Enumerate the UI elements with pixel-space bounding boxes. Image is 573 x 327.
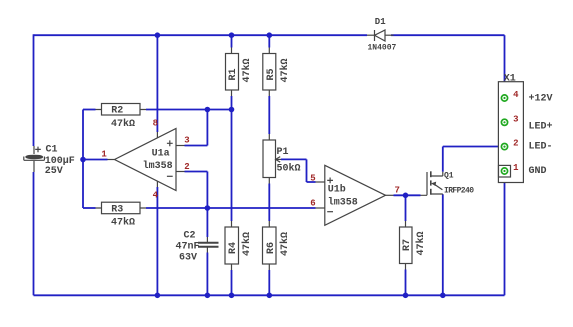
svg-text:R6: R6 xyxy=(266,242,277,254)
op-amp U1a xyxy=(108,129,185,191)
potentiometer P1 xyxy=(263,134,281,184)
node bottom rail / C2 junction xyxy=(205,293,211,299)
svg-text:47kΩ: 47kΩ xyxy=(241,58,253,82)
wire U1a pin3 branch xyxy=(185,110,208,146)
svg-text:1: 1 xyxy=(513,163,519,173)
wire Q1 source to bottom rail xyxy=(442,195,444,296)
wire P1 wiper to U1b pin5 xyxy=(281,159,316,182)
svg-text:R7: R7 xyxy=(402,239,413,251)
wire pin7 node down to R7 xyxy=(405,195,407,221)
svg-text:47nF: 47nF xyxy=(175,241,199,252)
wire R1 bottom to node xyxy=(231,96,233,110)
svg-text:R5: R5 xyxy=(266,68,277,80)
resistor R6 xyxy=(263,221,277,270)
svg-text:25V: 25V xyxy=(45,166,63,177)
diode D1 xyxy=(367,30,394,41)
svg-text:C1: C1 xyxy=(46,145,58,156)
svg-text:1N4007: 1N4007 xyxy=(368,43,397,52)
svg-text:4: 4 xyxy=(513,90,519,100)
node pin7 junction xyxy=(403,193,409,199)
X1 pin 2 xyxy=(501,144,507,150)
svg-text:4: 4 xyxy=(153,191,159,201)
wire X1 pin4 drop from top rail xyxy=(504,35,506,97)
wire C2 upper xyxy=(206,208,208,237)
wire R2 left stub xyxy=(83,109,96,111)
svg-text:63V: 63V xyxy=(179,252,197,263)
wire R2/R3 left vertical xyxy=(82,110,84,209)
wire U1a pin4 supply xyxy=(156,187,158,295)
svg-text:5: 5 xyxy=(310,174,315,184)
wire R5 bottom to P1 xyxy=(268,96,270,134)
wire LED- from X1 pin2 to Q1 drain xyxy=(443,147,504,172)
connector X1 xyxy=(498,82,523,183)
wire top rail right of D1 xyxy=(391,34,505,36)
svg-text:LED-: LED- xyxy=(529,141,553,152)
svg-text:IRFP240: IRFP240 xyxy=(444,186,474,195)
node top rail / pin8 junction xyxy=(155,32,161,38)
svg-text:R1: R1 xyxy=(228,68,239,80)
wire R1 top xyxy=(231,35,233,47)
svg-text:GND: GND xyxy=(529,166,547,177)
svg-text:47kΩ: 47kΩ xyxy=(279,232,291,256)
svg-text:2: 2 xyxy=(184,162,189,172)
svg-text:lm358: lm358 xyxy=(143,160,173,172)
resistor R4 xyxy=(225,221,239,270)
svg-text:P1: P1 xyxy=(277,147,289,158)
node bottom rail / R4 junction xyxy=(229,293,235,299)
wire X1 pin4-pin3 jumper xyxy=(504,99,506,121)
wire R1 node down to R4 xyxy=(231,110,233,222)
svg-text:100µF: 100µF xyxy=(45,156,75,167)
wire left rail lower (C1 to bottom) xyxy=(33,172,35,295)
wire R5 top xyxy=(268,35,270,47)
wire R3 to U1b pin6 xyxy=(146,207,316,209)
resistor R1 xyxy=(226,48,239,97)
svg-text:2: 2 xyxy=(513,139,518,149)
wire left rail upper (to C1) xyxy=(33,34,35,146)
X1 pin 4 xyxy=(501,95,507,101)
node pin2/pin6/C2 junction xyxy=(205,205,211,211)
svg-text:LED+: LED+ xyxy=(529,122,553,133)
resistor R3 xyxy=(96,202,147,214)
wire C2 lower xyxy=(206,253,208,296)
wire R6 bottom xyxy=(268,270,270,295)
svg-text:+12V: +12V xyxy=(529,93,553,104)
wire R3 left stub xyxy=(83,207,96,209)
svg-text:U1b: U1b xyxy=(328,183,346,195)
svg-text:47kΩ: 47kΩ xyxy=(111,118,135,130)
svg-text:U1a: U1a xyxy=(152,148,170,159)
capacitor C1 xyxy=(24,146,45,172)
wire X1 pin1 GND drop to bottom rail xyxy=(504,172,506,295)
svg-text:R3: R3 xyxy=(111,204,123,215)
resistor R5 xyxy=(263,48,276,97)
svg-text:47kΩ: 47kΩ xyxy=(111,217,135,229)
svg-text:1: 1 xyxy=(101,149,107,159)
node pin3 junction xyxy=(205,107,211,113)
svg-text:D1: D1 xyxy=(375,17,386,27)
node bottom rail / Q1 source junction xyxy=(440,293,446,299)
wire bottom rail xyxy=(34,294,505,296)
svg-text:50kΩ: 50kΩ xyxy=(277,162,301,174)
X1 pin 1 xyxy=(501,168,507,174)
wire U1a pin1 xyxy=(83,159,108,161)
wire U1a pin2 branch xyxy=(185,172,208,209)
transistor Q1 xyxy=(421,171,443,195)
node bottom rail / R6 junction xyxy=(267,293,273,299)
node top rail / R1 junction xyxy=(229,32,235,38)
svg-text:47kΩ: 47kΩ xyxy=(279,58,291,82)
wire U1a pin8 supply xyxy=(156,35,158,132)
svg-text:47kΩ: 47kΩ xyxy=(241,232,253,256)
wire P1 bottom to R6 xyxy=(268,184,270,222)
node bottom rail / pin4 junction xyxy=(155,293,161,299)
node R1/R4 divider junction xyxy=(229,107,235,113)
node bottom rail / R7 junction xyxy=(403,293,409,299)
node top rail / R5 junction xyxy=(267,32,273,38)
wire R7 bottom xyxy=(405,270,407,296)
svg-text:X1: X1 xyxy=(504,74,516,85)
svg-text:C2: C2 xyxy=(183,230,195,241)
wire R4 bottom xyxy=(231,270,233,295)
svg-text:R2: R2 xyxy=(111,106,123,117)
op-amp U1b xyxy=(316,165,394,225)
node pin1 junction xyxy=(80,157,86,163)
svg-text:3: 3 xyxy=(513,114,518,124)
svg-text:8: 8 xyxy=(153,118,158,128)
svg-text:7: 7 xyxy=(395,186,400,196)
resistor R7 xyxy=(400,221,413,270)
resistor R2 xyxy=(96,104,147,116)
svg-text:Q1: Q1 xyxy=(444,171,454,180)
X1 pin 3 xyxy=(501,119,507,125)
wire U1b pin7 to gate node xyxy=(394,194,421,196)
svg-text:47kΩ: 47kΩ xyxy=(415,231,427,255)
capacitor C2 xyxy=(198,237,219,253)
wire top rail left of D1 xyxy=(34,34,368,36)
wire R2 right to R1 node xyxy=(146,109,232,111)
svg-text:6: 6 xyxy=(310,199,315,209)
svg-text:3: 3 xyxy=(184,135,189,145)
svg-text:lm358: lm358 xyxy=(328,196,358,208)
svg-text:R4: R4 xyxy=(228,242,239,254)
